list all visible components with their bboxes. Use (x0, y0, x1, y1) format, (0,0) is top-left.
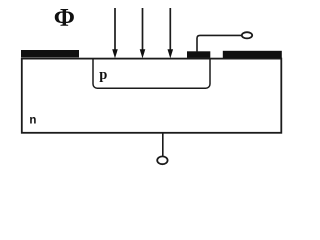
svg-text:p: p (99, 67, 107, 83)
svg-text:Φ: Φ (54, 2, 75, 31)
svg-text:n: n (29, 114, 36, 126)
